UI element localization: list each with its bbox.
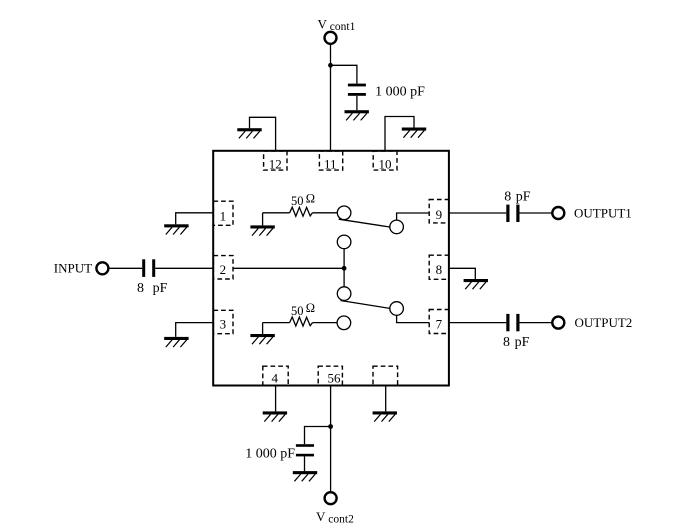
svg-text:1: 1 [220,208,227,223]
terminal INPUT [96,262,108,274]
switch contact circle upper-right (pin 9 side) [390,220,404,234]
svg-text:7: 7 [436,316,443,331]
wire branch to capacitor C1 [330,65,357,83]
wire R2 to switch contact [313,322,338,324]
wire branch to capacitor C5 [305,427,332,445]
wire pin 10 to ground [385,117,414,151]
wire R1 to switch contact [313,212,338,214]
svg-text:11: 11 [324,156,337,171]
pin 1 dashed box [213,201,233,225]
pin 11 dashed box [319,151,342,170]
wire contact to pin 9 [397,213,430,220]
capacitor C3 8 pF plates [506,205,509,222]
ground at pin 12 [237,128,261,138]
svg-text:8: 8 [436,262,443,277]
wire switch common vertical [343,249,345,287]
pin 8 dashed box [429,255,449,279]
ground at unlabeled pin [373,411,397,421]
svg-text:OUTPUT2: OUTPUT2 [575,315,633,330]
svg-text:4: 4 [272,371,279,386]
ground at pin 1 [164,224,188,234]
pin 4 dashed box [263,366,288,385]
unlabeled bottom pin dashed box [373,366,398,385]
wire V cont1 to pin 11 [330,45,332,151]
svg-text:pF: pF [515,335,530,350]
capacitor C5 1000 pF plates [296,444,314,447]
svg-text:1 000 pF: 1 000 pF [245,447,295,462]
svg-text:8: 8 [504,189,511,204]
svg-text:OUTPUT1: OUTPUT1 [574,206,632,221]
switch arm lower [341,301,390,309]
terminal V cont1 [325,32,337,44]
capacitor C4 8 pF plates [506,314,509,331]
wire pin 4 to ground [275,386,277,412]
svg-text:V cont2: V cont2 [316,509,354,526]
wire INPUT to capacitor C2 [109,267,142,269]
switch contact circle lower-right (pin 7 side) [390,302,404,316]
pin 12 dashed box [264,151,287,170]
node junction input common [342,266,347,271]
ground below C5 [293,471,317,481]
resistor R2 50 ohm [290,317,313,326]
svg-text:8: 8 [137,281,144,296]
svg-text:10: 10 [379,156,392,171]
wire pin 3 to ground [176,323,214,337]
ground at pin 4 [263,411,287,421]
switch contact circle lower-left (R2 side) [337,316,351,330]
ground internal lower (R2) [250,334,274,344]
switch contact circle upper-left (R1 side) [337,206,351,220]
capacitor C2 8 pF plates [142,259,145,277]
wire pins 5 6 to V cont2 [330,386,332,493]
terminal OUTPUT2 [552,317,564,329]
wire pin 9 to capacitor C3 [449,212,506,214]
svg-text:pF: pF [516,189,531,204]
ground at pin 8 [464,279,488,289]
wire C3 to OUTPUT1 terminal [520,212,553,214]
svg-text:9: 9 [436,207,443,222]
wire C2 to pin 2 [155,267,213,269]
node junction at V cont1 branch [328,63,333,68]
svg-text:8: 8 [503,335,510,350]
pin 7 dashed box [429,310,449,334]
pins 5 6 dashed box [318,366,342,385]
wire C1 to ground [356,96,358,110]
wire pin 12 to ground [250,117,276,151]
wire R1 ground riser [263,213,290,226]
wire pin 7 to capacitor C4 [449,322,506,324]
wire pin 2 to switch common node [233,267,344,269]
svg-text:INPUT: INPUT [54,261,92,276]
ground at pin 3 [164,337,188,347]
svg-text:1 000 pF: 1 000 pF [375,85,425,100]
terminal V cont2 [325,492,337,504]
wire pin 8 to ground [449,268,475,279]
wire R2 ground riser [263,323,290,334]
ground at pin 10 [402,128,426,138]
pin 9 dashed box [429,200,449,223]
resistor R1 50 ohm [290,207,313,216]
svg-text:50: 50 [291,194,304,208]
svg-text:pF: pF [153,281,168,296]
svg-text:V cont1: V cont1 [318,17,356,34]
node junction at V cont2 branch [328,424,333,429]
svg-text:Ω: Ω [306,191,315,205]
wire contact to pin 7 [397,315,430,322]
svg-text:2: 2 [220,262,227,277]
pin 2 dashed box [213,256,233,279]
wire unlabeled pin to ground [385,386,387,412]
pin 10 dashed box [373,151,397,170]
svg-text:Ω: Ω [306,301,315,315]
svg-text:50: 50 [291,304,304,318]
switch arm upper [339,219,390,227]
capacitor C1 1000 pF plates [348,84,366,87]
switch contact circle common lower [337,287,351,301]
svg-text:12: 12 [269,156,282,171]
wire C4 to OUTPUT2 terminal [520,322,553,324]
pin 3 dashed box [213,310,233,333]
wire pin 1 to ground [176,213,214,225]
svg-text:56: 56 [328,370,342,385]
terminal OUTPUT1 [552,207,564,219]
IC package U1 outline [213,151,449,386]
switch contact circle common upper [337,235,351,249]
wire C5 to ground [304,456,306,471]
ground below C1 [345,110,369,120]
ground internal upper (R1) [250,225,274,235]
svg-text:3: 3 [220,317,227,332]
